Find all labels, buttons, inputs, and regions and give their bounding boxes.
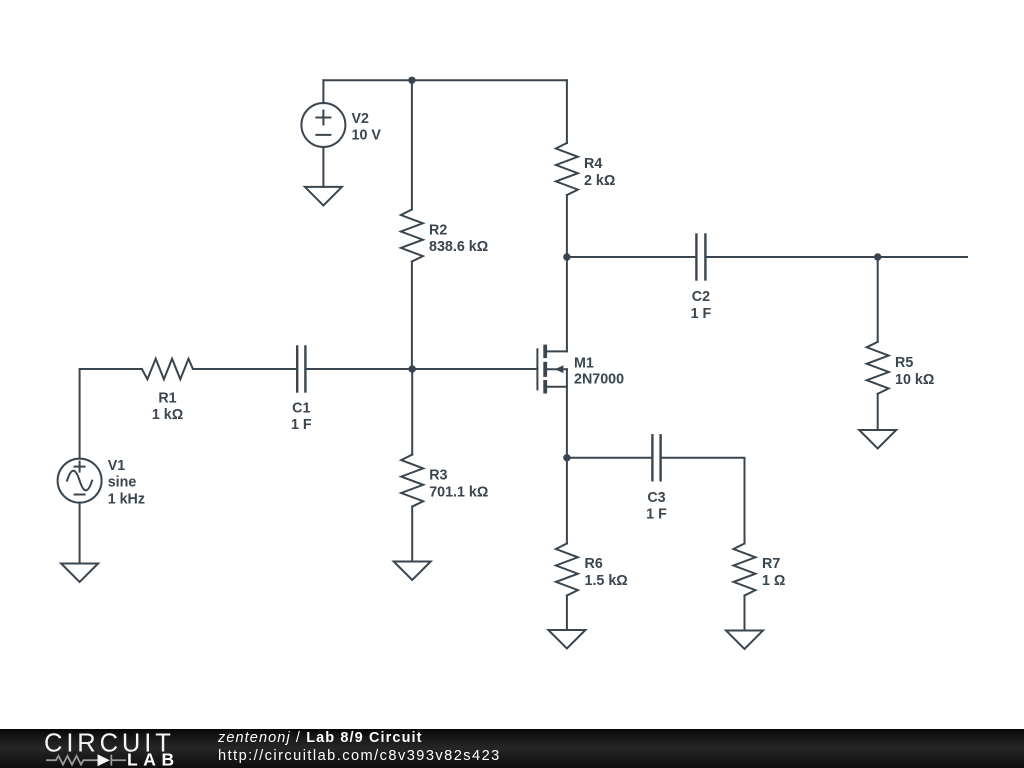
svg-text:1 F: 1 F [691,306,712,322]
svg-text:sine: sine [108,475,137,491]
resistor R4 [556,80,615,257]
transistor M1 2N7000 [537,345,624,394]
wire source vertical [566,369,568,458]
resistor R2 [401,80,488,369]
svg-text:1 F: 1 F [291,417,312,433]
svg-text:1 F: 1 F [646,507,667,523]
CircuitLab logo [0,729,210,768]
wire drain vertical [566,257,568,351]
svg-text:LAB: LAB [127,750,180,768]
resistor R6 [556,458,628,630]
resistor R5 [867,257,935,430]
svg-text:R4: R4 [584,156,602,172]
resistor R7 [734,544,786,631]
svg-text:V1: V1 [108,458,126,474]
svg-text:701.1 kΩ: 701.1 kΩ [429,484,488,500]
ground for R6 [548,630,585,649]
wire output rail [567,256,695,258]
svg-text:1 kHz: 1 kHz [108,491,145,507]
wire output rail right [707,256,967,258]
svg-text:2 kΩ: 2 kΩ [584,173,615,189]
svg-text:R3: R3 [429,467,447,483]
ground for R7 [726,631,763,650]
capacitor C2 [691,235,712,322]
voltage source V2 [301,80,381,187]
svg-text:838.6 kΩ: 838.6 kΩ [429,239,488,255]
svg-text:R1: R1 [158,391,176,407]
resistor R3 [401,369,488,562]
svg-text:M1: M1 [574,355,594,371]
node gate-rail junction [409,365,416,372]
ground for R5 [859,430,896,449]
capacitor C1 [291,347,312,434]
ground for R3 [394,562,431,581]
wire input rail mid [193,368,296,370]
svg-text:1 kΩ: 1 kΩ [152,407,183,423]
svg-text:10 kΩ: 10 kΩ [895,372,934,388]
svg-text:R2: R2 [429,222,447,238]
resistor R1 [142,359,193,423]
svg-text:V2: V2 [352,111,370,127]
node top-rail junction [408,77,415,84]
footer url text [218,748,501,764]
svg-text:10 V: 10 V [352,128,382,144]
svg-text:2N7000: 2N7000 [574,372,624,388]
wire C3 to R7 [662,458,745,544]
footer bar [0,729,1024,768]
svg-text:R5: R5 [895,355,913,371]
node output junction [874,253,881,260]
svg-text:C2: C2 [692,289,710,305]
capacitor C3 [646,435,667,522]
node source junction [563,454,570,461]
wire input rail left [80,368,142,370]
svg-text:1.5 kΩ: 1.5 kΩ [585,573,628,589]
wire top rail [323,79,567,81]
wire source node rail [567,457,651,459]
svg-text:R6: R6 [585,556,603,572]
svg-text:R7: R7 [762,556,780,572]
svg-text:1 Ω: 1 Ω [762,573,785,589]
ground for V1 [61,564,98,583]
svg-text:C3: C3 [647,490,665,506]
footer title text [218,730,423,746]
wire input rail right [307,368,538,370]
voltage source V1 [58,369,145,564]
ground for V2 [305,187,342,206]
svg-text:C1: C1 [292,401,310,417]
node drain junction [563,253,570,260]
